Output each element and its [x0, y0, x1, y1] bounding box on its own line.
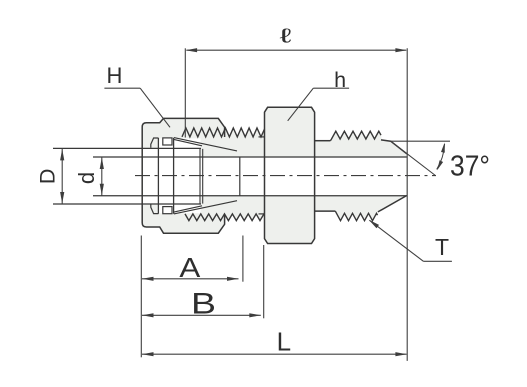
svg-text:L: L	[277, 327, 291, 357]
svg-text:ℓ: ℓ	[280, 25, 292, 47]
svg-text:B: B	[191, 287, 216, 320]
svg-text:T: T	[435, 234, 449, 260]
svg-text:37°: 37°	[450, 149, 490, 181]
svg-text:d: d	[74, 172, 99, 184]
svg-text:D: D	[36, 169, 60, 185]
svg-text:H: H	[106, 63, 122, 88]
svg-text:A: A	[179, 252, 200, 283]
svg-text:h: h	[334, 68, 346, 92]
